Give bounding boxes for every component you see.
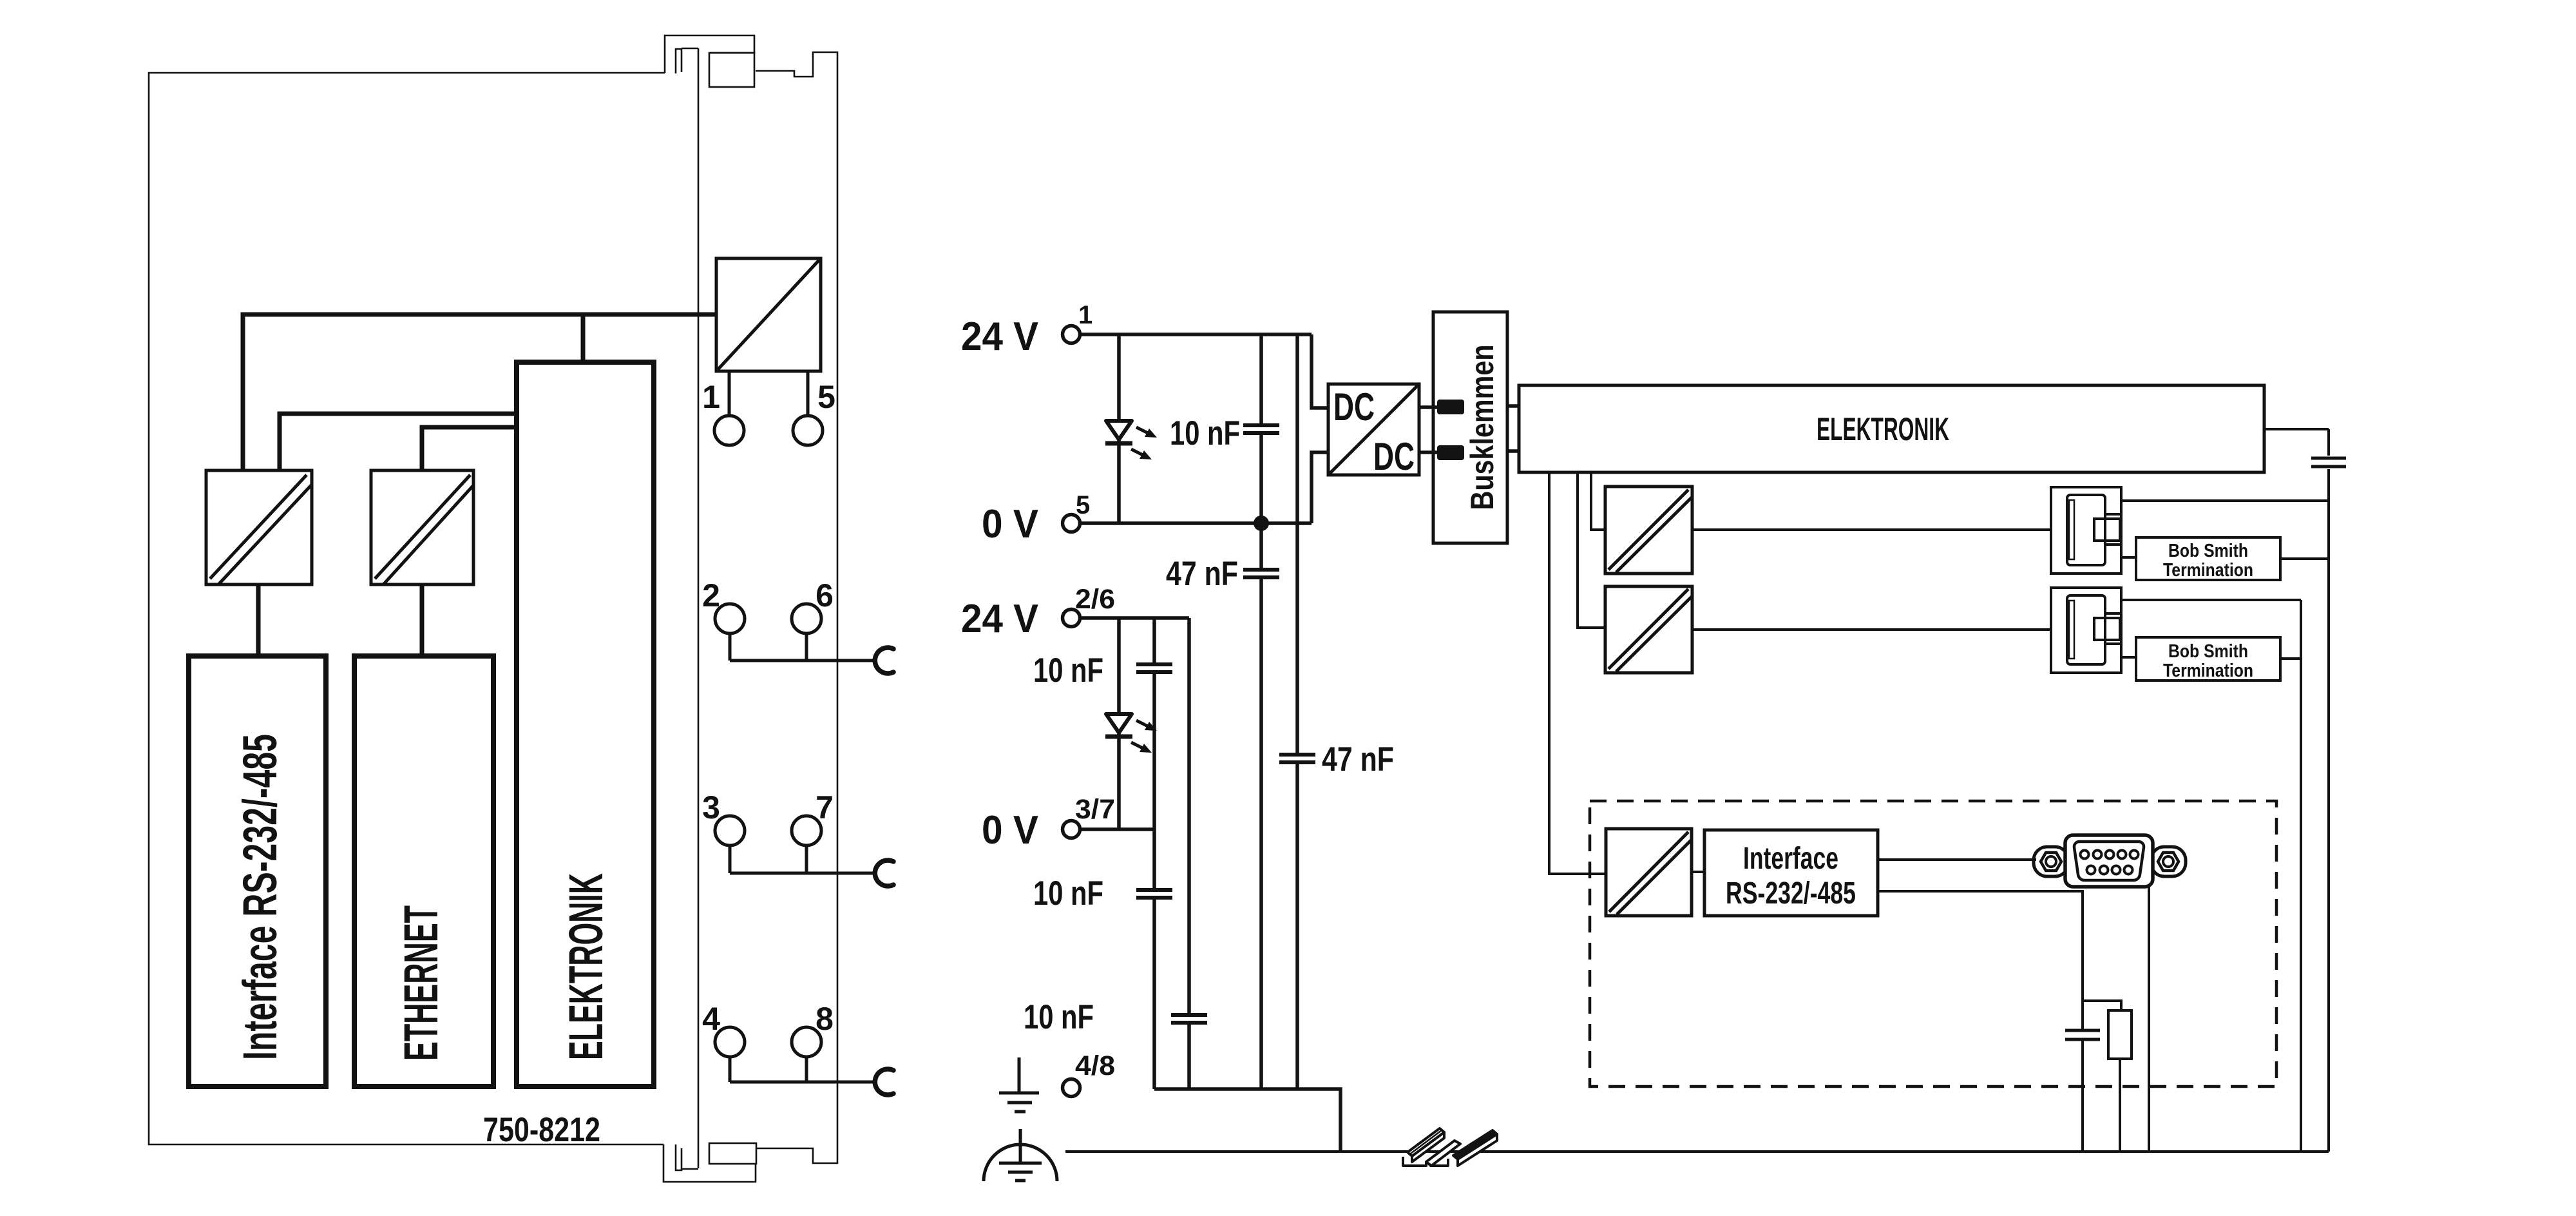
- capacitor 10nF field lower (24V-PE): [1024, 618, 1207, 1089]
- strip bottom tab: [709, 1143, 756, 1164]
- housing top latch channel: [676, 49, 682, 73]
- housing bottom latch channel: [676, 1144, 682, 1170]
- svg-text:ELEKTRONIK: ELEKTRONIK: [1817, 411, 1949, 447]
- dashed boundary: [1590, 801, 2276, 1086]
- svg-text:10 nF: 10 nF: [1033, 874, 1103, 912]
- svg-text:0 V: 0 V: [982, 502, 1038, 546]
- bus pad lower: [1437, 445, 1464, 460]
- strip top profile: [756, 52, 837, 1163]
- DIN rail icon: [1403, 1128, 1497, 1166]
- isolator ETH1: [1605, 487, 1692, 574]
- svg-text:2: 2: [702, 577, 720, 613]
- clamp hook row 4/8: [875, 1069, 893, 1095]
- contact 8: [792, 1027, 821, 1057]
- svg-text:6: 6: [816, 577, 834, 613]
- svg-text:DC: DC: [1333, 385, 1375, 429]
- wire isolator1 to RJ45-1: [1692, 528, 2051, 531]
- svg-text:8: 8: [816, 1001, 834, 1037]
- svg-text:ELEKTRONIK: ELEKTRONIK: [559, 873, 613, 1060]
- capacitor 10nF field mid (0V-PE): [1033, 829, 1172, 1089]
- right ear: [2151, 847, 2186, 876]
- wire isolator to interface box: [1692, 871, 1704, 873]
- svg-text:750-8212: 750-8212: [483, 1111, 600, 1149]
- RC termination: [2065, 1001, 2132, 1152]
- wire RJ45-1 top to shield bus: [2121, 499, 2329, 502]
- wire bus elektronik-to-power: [243, 314, 716, 469]
- block ELEKTRONIK: [517, 362, 654, 1086]
- D-sub 9 connector: [2034, 835, 2186, 887]
- clamp hook row 3/7: [875, 860, 893, 886]
- svg-text:Interface RS-232/-485: Interface RS-232/-485: [233, 734, 287, 1060]
- wire bus ethernet-isolator to elektronik: [422, 427, 517, 469]
- Bob Smith termination 2: [2136, 637, 2280, 681]
- resistor: [2108, 1010, 2132, 1059]
- contact 2: [715, 604, 745, 633]
- wire DC/DC out lower: [1419, 450, 1437, 454]
- wire bus row 2/6: [730, 633, 876, 661]
- svg-text:1: 1: [1078, 301, 1092, 329]
- wire 0V to DC/DC input: [1312, 452, 1328, 523]
- bus pad upper: [1437, 400, 1464, 414]
- svg-text:Interface: Interface: [1743, 842, 1838, 876]
- insert: [2074, 842, 2144, 880]
- stub contact 5: [806, 371, 810, 416]
- wire busklemmen to elektronik upper: [1507, 404, 1519, 408]
- housing top latch hook: [665, 35, 754, 73]
- shell: [2065, 835, 2153, 887]
- isolator serial: [1606, 829, 1692, 916]
- LED 2: [1105, 618, 1157, 829]
- RJ45 jack 1: [2051, 487, 2121, 574]
- LED 1: [1105, 334, 1157, 523]
- block Interface RS-232/-485: [189, 656, 326, 1086]
- svg-text:3: 3: [702, 789, 720, 825]
- svg-text:7: 7: [816, 789, 834, 825]
- clamp hook row 2/6: [875, 648, 893, 673]
- contact 1: [714, 416, 744, 445]
- RJ45 jack 2: [2051, 588, 2121, 673]
- Bob Smith termination 1: [2136, 537, 2280, 581]
- capacitor shield (vertical): [2311, 458, 2346, 1152]
- svg-text:10 nF: 10 nF: [1170, 414, 1240, 452]
- svg-text:3/7: 3/7: [1075, 794, 1115, 825]
- wire BobSmith1 to shield bus: [2280, 557, 2329, 560]
- contact row 4/8: [702, 1001, 893, 1095]
- left ear: [2034, 847, 2068, 876]
- contact 7: [792, 816, 821, 845]
- svg-text:4/8: 4/8: [1075, 1050, 1115, 1081]
- wire 24V field rail: [1082, 616, 1189, 620]
- wire RJ45-2 to BobSmith2: [2121, 656, 2136, 659]
- wire RJ45-1 to BobSmith1: [2121, 556, 2136, 559]
- capacitor 10nF field upper: [1033, 618, 1172, 829]
- earth symbol: [999, 1057, 1039, 1112]
- capacitor 47nF (24V-PE): [1279, 334, 1394, 1089]
- wire bus row 3/7: [730, 845, 876, 873]
- svg-text:2/6: 2/6: [1075, 584, 1115, 615]
- wire elektronik to shield capacitor: [2264, 429, 2329, 456]
- svg-text:5: 5: [1076, 491, 1090, 519]
- svg-text:RS-232/-485: RS-232/-485: [1726, 876, 1856, 911]
- wire bus row 4/8: [730, 1057, 876, 1082]
- wire interface to DB9: [1878, 858, 2036, 861]
- wire collector bus to PE: [1154, 1089, 1340, 1152]
- Busklemmen block: [1419, 312, 1519, 543]
- pins row2: [2087, 866, 2133, 874]
- wire isolator2 to RJ45-2: [1692, 628, 2051, 631]
- wire BobSmith2 to right bus: [2280, 657, 2301, 660]
- wire elektronik to serial isolator: [1549, 472, 1606, 874]
- wire DC/DC out upper: [1419, 405, 1437, 409]
- svg-text:1: 1: [702, 379, 720, 415]
- wire busklemmen to elektronik lower: [1507, 449, 1519, 453]
- housing outline left/top/bottom: [149, 73, 665, 1144]
- terminal 1: [1063, 326, 1080, 343]
- wire isolator A to interface block: [256, 584, 261, 656]
- wire interface lower to RC: [1878, 891, 2083, 1001]
- contact 4: [715, 1027, 745, 1057]
- svg-text:0 V: 0 V: [982, 808, 1038, 853]
- isolator A (interface): [206, 470, 312, 584]
- svg-text:Termination: Termination: [2163, 661, 2253, 681]
- DC/DC converter U1: [1328, 384, 1419, 478]
- isolator B (ethernet): [371, 470, 473, 584]
- svg-text:47 nF: 47 nF: [1166, 555, 1238, 593]
- svg-text:ETHERNET: ETHERNET: [394, 905, 448, 1061]
- capacitor: [2065, 1029, 2100, 1032]
- wire elektronik to eth isolator 2: [1578, 472, 1605, 628]
- wire 24V rail: [1082, 333, 1312, 336]
- strip top tab: [709, 53, 754, 87]
- contact 6: [792, 604, 821, 633]
- housing bottom foot: [663, 1144, 756, 1182]
- PE rail: [1065, 1150, 2329, 1153]
- svg-text:47 nF: 47 nF: [1322, 740, 1394, 778]
- contact row 1/5: [702, 371, 835, 445]
- terminal 3/7: [1063, 821, 1080, 838]
- svg-text:24 V: 24 V: [961, 597, 1038, 641]
- wire 0V rail: [1082, 521, 1312, 525]
- ELEKTRONIK main block: [1519, 385, 2264, 472]
- wire 24V to DC/DC input: [1312, 334, 1328, 408]
- svg-text:10 nF: 10 nF: [1024, 998, 1094, 1036]
- svg-text:5: 5: [817, 379, 835, 415]
- pins row1: [2081, 851, 2139, 859]
- wire junction to elektronik block top: [581, 314, 586, 362]
- svg-text:Bob Smith: Bob Smith: [2168, 641, 2248, 662]
- wire isolator B to ethernet block: [420, 584, 425, 656]
- svg-text:Bob Smith: Bob Smith: [2168, 541, 2248, 561]
- wire 0V field rail: [1082, 827, 1154, 831]
- svg-text:Busklemmen: Busklemmen: [1464, 345, 1500, 510]
- wire bus interface-isolator to elektronik: [280, 414, 517, 469]
- contact 3: [715, 816, 745, 845]
- stub contact 1: [728, 371, 731, 416]
- contact 5: [793, 416, 823, 445]
- contact row 3/7: [702, 789, 893, 886]
- protective earth symbol: [984, 1129, 1057, 1181]
- housing right edge: [698, 48, 700, 1168]
- svg-text:10 nF: 10 nF: [1033, 651, 1103, 690]
- svg-text:24 V: 24 V: [961, 314, 1038, 359]
- contact row 2/6: [702, 577, 893, 673]
- terminal 5: [1063, 515, 1080, 532]
- block ETHERNET: [354, 656, 493, 1086]
- branch to resistor: [2083, 1001, 2121, 1010]
- svg-text:4: 4: [702, 1001, 720, 1037]
- junction node 0V: [1254, 516, 1269, 531]
- terminal 4/8: [1063, 1079, 1080, 1097]
- svg-text:Termination: Termination: [2163, 560, 2253, 581]
- isolator ETH2: [1605, 586, 1692, 673]
- wire RJ45-2 top to right bus: [2121, 600, 2301, 1152]
- terminal 2/6: [1063, 610, 1080, 627]
- ground terminal 4/8: [999, 1050, 1115, 1112]
- wire elektronik to eth isolator 1: [1591, 472, 1605, 530]
- capacitor 47nF (0V-PE): [1166, 523, 1279, 1089]
- wire DB9 shield to PE: [2148, 887, 2150, 1152]
- svg-text:DC: DC: [1373, 435, 1415, 478]
- power feed symbol in strip: [716, 258, 821, 371]
- capacitor 10nF (24V-0V): [1170, 334, 1279, 523]
- interface RS-232/-485 box: [1704, 830, 1878, 916]
